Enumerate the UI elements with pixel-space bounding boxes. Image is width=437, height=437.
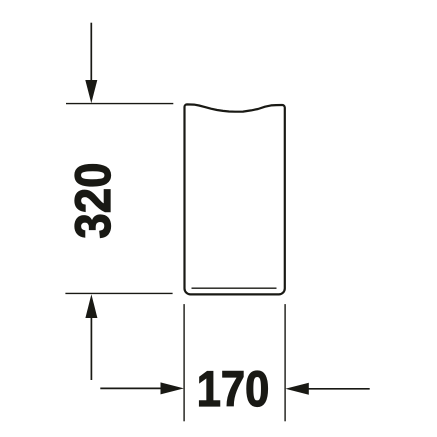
pedestal outline — [185, 104, 285, 294]
dimension arrow right (170 left) — [100, 387, 162, 389]
extension line bottom (320) — [65, 292, 172, 294]
extension line top (320) — [66, 103, 173, 105]
dimension arrow left (170 right) — [308, 388, 370, 390]
extension line right vertical (170) — [284, 304, 286, 421]
svg-text:320: 320 — [65, 163, 121, 239]
pedestal inner base line — [192, 287, 277, 289]
svg-text:170: 170 — [197, 361, 270, 417]
extension line left vertical (170) — [183, 304, 185, 421]
dimension arrow up (320 bottom) — [90, 316, 92, 380]
dimension arrow down (320 top) — [90, 23, 92, 82]
